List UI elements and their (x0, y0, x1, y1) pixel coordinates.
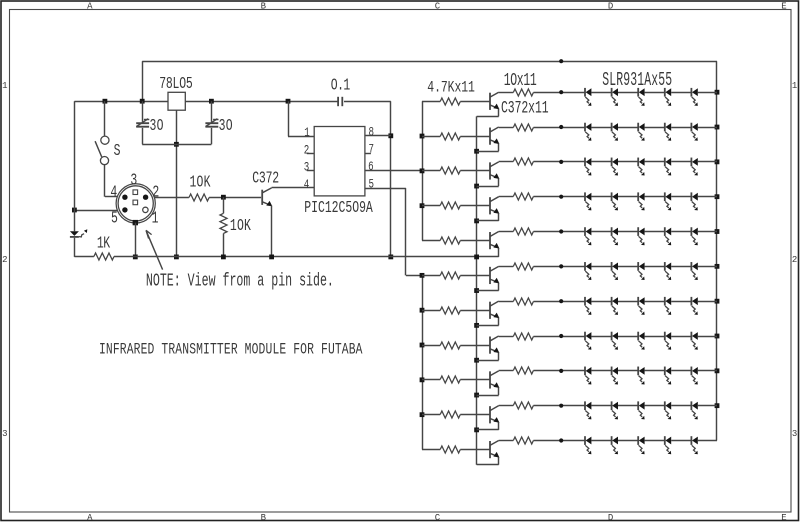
label 3 (130, 171, 137, 190)
pin 7 label (369, 143, 375, 157)
wire (460, 414, 490, 416)
wire (477, 109, 499, 117)
wire (698, 301, 717, 303)
wire (698, 266, 717, 268)
LED row 11 #2 (612, 436, 618, 454)
svg-text:B: B (261, 512, 267, 522)
pin 5 wire (365, 188, 422, 275)
wire (142, 61, 717, 63)
wire (698, 161, 717, 163)
label 4.7Kx11 (427, 79, 475, 97)
junction (269, 255, 274, 260)
svg-text:A: A (87, 512, 93, 522)
resistor 4.7K row 5 (440, 237, 460, 244)
label 0.1 (331, 76, 351, 95)
svg-text:4: 4 (304, 179, 310, 193)
wire (645, 405, 665, 407)
junction (286, 99, 291, 104)
LED row 6 #2 (612, 262, 618, 280)
svg-text:C: C (435, 0, 441, 11)
node (559, 229, 563, 233)
pin 3 (133, 190, 138, 195)
transistor Q1 C372 (262, 188, 272, 206)
wire (698, 405, 717, 407)
LED row 1 #4 (665, 88, 671, 106)
resistor 10 row 7 (513, 298, 533, 305)
wire (390, 101, 392, 257)
wire (460, 240, 490, 242)
junction (474, 255, 479, 260)
LED row 5 #2 (612, 227, 618, 245)
wire (671, 127, 691, 129)
wire (645, 196, 665, 198)
LED row 9 #1 (585, 367, 591, 385)
junction (420, 273, 425, 278)
LED row 3 #4 (665, 158, 671, 176)
wire (618, 266, 638, 268)
junction (474, 323, 479, 328)
resistor 1K (94, 253, 114, 260)
wire (591, 127, 611, 129)
svg-text:5: 5 (369, 178, 375, 192)
resistor 10 row 10 (513, 402, 533, 409)
junction (715, 403, 720, 408)
label 4 (110, 184, 117, 203)
transistor Q4 C372 row 3 (490, 162, 499, 180)
wire (499, 370, 514, 372)
wire (533, 161, 585, 163)
wire (422, 170, 440, 172)
wire (272, 187, 315, 189)
wire (618, 127, 638, 129)
LED row 7 #4 (665, 297, 671, 315)
LED row 1 #2 (612, 88, 618, 106)
wire (698, 440, 717, 442)
LED row 5 #3 (638, 227, 644, 245)
wire (533, 92, 585, 94)
wire (422, 136, 440, 138)
junction (420, 308, 425, 313)
wire (618, 92, 638, 94)
LED row 6 #5 (691, 262, 697, 280)
junction (715, 334, 720, 339)
wire (142, 144, 211, 146)
node (559, 369, 563, 373)
wire (499, 266, 514, 268)
junction (420, 377, 425, 382)
junction (420, 203, 425, 208)
wire (618, 440, 638, 442)
junction (715, 229, 720, 234)
wire (74, 101, 337, 103)
pin 6 wire (365, 170, 422, 172)
wire (422, 345, 440, 347)
pin 5 label (369, 178, 375, 192)
wire (591, 161, 611, 163)
pin center (133, 200, 138, 205)
wire (618, 301, 638, 303)
wire (533, 336, 585, 338)
wire (591, 301, 611, 303)
wire (671, 196, 691, 198)
LED row 6 #1 (585, 262, 591, 280)
svg-text:1OK: 1OK (190, 174, 211, 193)
svg-text:S: S (114, 142, 121, 161)
label 2 (152, 184, 159, 203)
wire (477, 143, 499, 151)
LED row 4 #2 (612, 192, 618, 210)
label 10x11 (504, 69, 537, 91)
wire (533, 266, 585, 268)
transistor Q7 C372 row 6 (490, 266, 499, 284)
transistor Q3 C372 row 2 (490, 127, 499, 145)
regulator U2 78L05 (168, 92, 185, 110)
wire (74, 210, 117, 212)
svg-text:1OK: 1OK (230, 217, 251, 236)
wire (74, 256, 94, 258)
LED row 4 #1 (585, 192, 591, 210)
wire (645, 127, 665, 129)
wire (422, 449, 440, 451)
svg-text:3: 3 (304, 162, 310, 176)
bus wire (422, 101, 424, 240)
LED row 7 #1 (585, 297, 591, 315)
LED row 10 #5 (691, 401, 697, 419)
wire (618, 370, 638, 372)
node (559, 334, 563, 338)
resistor 10 row 9 (513, 367, 533, 374)
wire (591, 370, 611, 372)
wire (499, 336, 514, 338)
svg-text:INFRARED TRANSMITTER MODULE FO: INFRARED TRANSMITTER MODULE FOR FUTABA (99, 342, 363, 359)
label S (114, 142, 121, 161)
LED row 2 #1 (585, 123, 591, 141)
switch S (95, 101, 109, 165)
pin 2 (143, 195, 148, 200)
wire (671, 231, 691, 233)
wire (477, 318, 499, 326)
junction (221, 195, 226, 200)
junction (715, 90, 720, 95)
wire (288, 101, 314, 136)
svg-text:D: D (608, 512, 614, 522)
resistor 4.7K row 9 (440, 376, 460, 383)
wire (698, 127, 717, 129)
LED row 10 #4 (665, 401, 671, 419)
junction (715, 368, 720, 373)
wire (671, 370, 691, 372)
junction (103, 99, 108, 104)
svg-text:5: 5 (111, 210, 118, 229)
wire (499, 440, 514, 442)
junction (209, 99, 214, 104)
svg-text:3: 3 (130, 171, 137, 190)
transistor Q12 C372 row 11 (490, 441, 499, 459)
pin 8 stub (365, 135, 391, 137)
wire (142, 61, 144, 101)
LED row 2 #3 (638, 123, 644, 141)
LED row 11 #5 (691, 436, 697, 454)
wire (460, 379, 490, 381)
svg-text:E: E (781, 512, 787, 522)
svg-text:NOTE: View from a pin side.: NOTE: View from a pin side. (146, 271, 334, 292)
resistor 10K (189, 194, 209, 201)
svg-text:B: B (261, 0, 267, 11)
LED row 3 #1 (585, 158, 591, 176)
resistor 10 row 5 (513, 228, 533, 235)
wire (209, 197, 261, 199)
svg-text:2: 2 (304, 144, 310, 158)
label 1K (97, 235, 111, 254)
bus wire (716, 61, 718, 440)
label 10K (190, 174, 211, 193)
junction (715, 159, 720, 164)
label 78L05 (159, 75, 193, 94)
svg-text:3: 3 (792, 428, 797, 439)
wire (460, 275, 490, 277)
svg-text:E: E (781, 0, 787, 11)
wire (591, 440, 611, 442)
LED row 6 #4 (665, 262, 671, 280)
resistor 10 row 3 (513, 158, 533, 165)
wire (671, 266, 691, 268)
node (559, 195, 563, 199)
wire (477, 422, 499, 430)
label 30 (150, 117, 164, 136)
pin 6 label (368, 161, 374, 175)
svg-text:C372: C372 (252, 170, 279, 189)
resistor 4.7K row 4 (440, 202, 460, 209)
junction (221, 255, 226, 260)
capacitor C3 0.1 (338, 97, 342, 106)
resistor 10 row 8 (513, 333, 533, 340)
node (559, 438, 563, 442)
note arrow (146, 230, 163, 269)
LED row 5 #4 (665, 227, 671, 245)
pin 7 stub (365, 153, 371, 155)
LED row 1 #3 (638, 88, 644, 106)
wire (176, 110, 178, 257)
LED row 10 #3 (638, 401, 644, 419)
svg-text:78LO5: 78LO5 (159, 75, 193, 94)
junction (420, 134, 425, 139)
wire (344, 101, 391, 103)
resistor 10 row 4 (513, 193, 533, 200)
note text (146, 271, 334, 292)
wire (422, 414, 440, 416)
svg-text:4: 4 (110, 184, 117, 203)
junction (420, 343, 425, 348)
wire (645, 301, 665, 303)
wire (671, 405, 691, 407)
wire (533, 405, 585, 407)
resistor 4.7K row 10 (440, 411, 460, 418)
label 1 (152, 210, 159, 229)
wire (671, 301, 691, 303)
wire (533, 231, 585, 233)
pin 4 label (304, 179, 310, 193)
wire (618, 196, 638, 198)
transistor Q6 C372 row 5 (490, 232, 499, 250)
LED row 8 #4 (665, 332, 671, 350)
pin 3 label (304, 162, 310, 176)
transistor Q2 C372 row 1 (490, 92, 499, 110)
wire (671, 336, 691, 338)
svg-text:1: 1 (152, 210, 159, 229)
LED row 4 #3 (638, 192, 644, 210)
LED row 3 #3 (638, 158, 644, 176)
LED row 9 #4 (665, 367, 671, 385)
resistor 10 row 1 (513, 89, 533, 96)
wire (698, 196, 717, 198)
wire (105, 165, 118, 197)
wire (477, 457, 499, 465)
bus wire (422, 275, 424, 449)
LED row 8 #1 (585, 332, 591, 350)
pin 2 label (304, 144, 310, 158)
wire (460, 310, 490, 312)
wire (460, 170, 490, 172)
wire (74, 101, 76, 231)
LED row 6 #3 (638, 262, 644, 280)
bus wire (476, 116, 478, 464)
svg-text:1: 1 (304, 127, 310, 141)
wire (533, 301, 585, 303)
junction (474, 393, 479, 398)
junction (715, 194, 720, 199)
svg-text:PIC12C5O9A: PIC12C5O9A (304, 199, 373, 218)
wire (499, 92, 514, 94)
wire (618, 161, 638, 163)
resistor 4.7K row 8 (440, 342, 460, 349)
LED row 3 #2 (612, 158, 618, 176)
svg-text:O.1: O.1 (331, 76, 351, 95)
junction (715, 125, 720, 130)
pin 2 stub (307, 153, 314, 155)
transistor Q5 C372 row 4 (490, 197, 499, 215)
wire (671, 440, 691, 442)
wire (460, 205, 490, 207)
wire (645, 370, 665, 372)
LED row 9 #2 (612, 367, 618, 385)
LED D1 (70, 229, 87, 237)
wire (422, 310, 440, 312)
wire (591, 92, 611, 94)
LED row 9 #3 (638, 367, 644, 385)
svg-text:D: D (608, 0, 614, 11)
LED row 2 #5 (691, 123, 697, 141)
svg-text:2: 2 (2, 254, 7, 265)
node (559, 404, 563, 408)
svg-text:1Ox11: 1Ox11 (504, 69, 537, 91)
wire (460, 101, 490, 103)
junction (174, 255, 179, 260)
svg-text:3: 3 (2, 428, 7, 439)
connector J1 DIN socket (116, 184, 155, 223)
wire (591, 196, 611, 198)
pin 1 label (304, 127, 310, 141)
wire (591, 336, 611, 338)
wire (499, 301, 514, 303)
junction (715, 299, 720, 304)
wire (223, 197, 225, 213)
wire (698, 370, 717, 372)
node (559, 299, 563, 303)
wire (645, 161, 665, 163)
junction (133, 255, 138, 260)
label 5 (111, 210, 118, 229)
junction (174, 142, 179, 147)
label C372 (252, 170, 279, 189)
junction (474, 184, 479, 189)
svg-text:3O: 3O (150, 117, 164, 136)
wire (499, 127, 514, 129)
LED row 7 #3 (638, 297, 644, 315)
wire (698, 336, 717, 338)
wire (499, 405, 514, 407)
resistor 4.7K row 3 (440, 167, 460, 174)
pin 1 (143, 207, 148, 212)
junction (388, 255, 393, 260)
pin shield (133, 220, 138, 225)
junction (715, 264, 720, 269)
wire (477, 387, 499, 395)
LED row 7 #5 (691, 297, 697, 315)
wire (645, 231, 665, 233)
transistor Q8 C372 row 7 (490, 301, 499, 319)
LED row 2 #2 (612, 123, 618, 141)
node (559, 125, 563, 129)
wire (498, 248, 500, 257)
LED row 8 #5 (691, 332, 697, 350)
wire (645, 440, 665, 442)
wire (591, 231, 611, 233)
wire (477, 283, 499, 291)
pin 4 (122, 195, 127, 200)
node (559, 160, 563, 164)
LED row 11 #3 (638, 436, 644, 454)
wire (671, 92, 691, 94)
wire (422, 205, 440, 207)
wire (645, 336, 665, 338)
label C372x11 (501, 99, 549, 118)
svg-text:SLR931Ax55: SLR931Ax55 (602, 69, 672, 91)
junction (388, 133, 393, 138)
wire (499, 231, 514, 233)
wire (618, 336, 638, 338)
capacitor C1 30 (136, 101, 149, 144)
LED row 4 #4 (665, 192, 671, 210)
LED row 7 #2 (612, 297, 618, 315)
label SLR931Ax55 (602, 69, 672, 91)
wire (460, 449, 490, 451)
pin 8 label (369, 126, 375, 140)
LED row 11 #1 (585, 436, 591, 454)
wire (645, 92, 665, 94)
junction (72, 208, 77, 213)
LED row 1 #1 (585, 88, 591, 106)
wire (477, 178, 499, 186)
svg-text:2: 2 (792, 254, 797, 265)
svg-text:8: 8 (369, 126, 375, 140)
node (559, 90, 563, 94)
junction (474, 358, 479, 363)
transistor Q9 C372 row 8 (490, 336, 499, 354)
resistor 10K pulldown (220, 213, 227, 233)
resistor 10 row 11 (513, 437, 533, 444)
resistor 4.7K row 11 (440, 446, 460, 453)
wire (698, 92, 717, 94)
